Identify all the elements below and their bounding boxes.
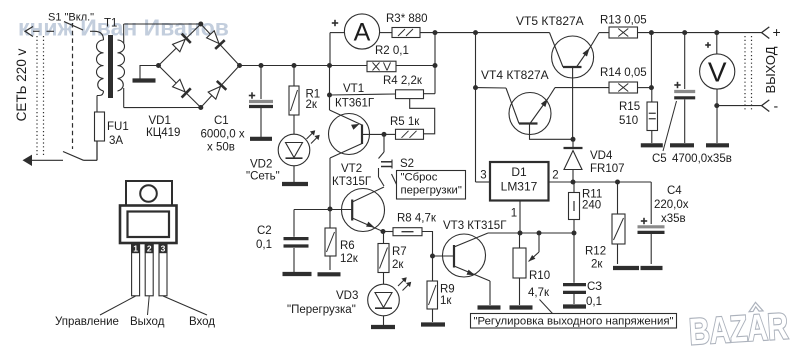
svg-text:х 50в: х 50в [207,142,235,154]
svg-text:V: V [708,57,727,88]
svg-text:R2 0,1: R2 0,1 [375,45,409,57]
svg-text:BAZAR: BAZAR [688,305,789,352]
svg-text:R3* 880: R3* 880 [386,13,428,25]
svg-text:4700,0х35в: 4700,0х35в [672,153,732,165]
svg-text:R7: R7 [392,246,407,258]
svg-text:D1: D1 [511,165,527,179]
svg-text:3: 3 [161,244,166,254]
svg-text:0,1: 0,1 [586,296,602,308]
svg-text:VT4 КТ827А: VT4 КТ827А [481,68,549,82]
svg-text:VT2: VT2 [341,163,362,175]
svg-text:1к: 1к [440,295,452,307]
svg-text:VT3 КТ315Г: VT3 КТ315Г [443,220,507,232]
svg-text:+: + [773,24,781,40]
svg-text:3: 3 [480,170,486,182]
svg-text:-: - [774,98,779,114]
svg-text:R15: R15 [619,101,640,113]
svg-text:Т1: Т1 [104,18,117,30]
svg-text:СЕТЬ 220 v: СЕТЬ 220 v [14,48,29,121]
svg-text:VD2: VD2 [250,159,272,171]
svg-text:перегрузки": перегрузки" [401,185,462,197]
svg-text:C5: C5 [652,153,667,165]
svg-text:R14 0,05: R14 0,05 [600,67,647,79]
svg-text:VT1: VT1 [343,83,364,95]
svg-text:2к: 2к [392,259,404,271]
svg-text:СЗ: СЗ [587,281,602,293]
svg-text:510: 510 [619,115,638,127]
svg-text:VT5 КТ827А: VT5 КТ827А [516,14,584,28]
svg-text:2: 2 [147,244,152,254]
svg-text:"Сброс: "Сброс [401,172,438,184]
svg-text:2к: 2к [591,259,603,271]
svg-text:R5 1к: R5 1к [390,116,420,128]
svg-text:0,1: 0,1 [256,239,272,251]
svg-text:C1: C1 [214,115,229,127]
svg-text:Выход: Выход [130,316,165,328]
svg-text:1: 1 [133,244,138,254]
svg-text:КТ315Г: КТ315Г [332,176,372,188]
svg-text:FR107: FR107 [590,163,625,175]
svg-text:Вход: Вход [189,316,215,328]
svg-text:R8 4,7к: R8 4,7к [397,213,437,225]
svg-text:х35в: х35в [661,213,686,225]
svg-text:R13 0,05: R13 0,05 [600,15,647,27]
svg-text:2к: 2к [306,99,318,111]
svg-text:2: 2 [552,170,558,182]
svg-text:S1 "Вкл.": S1 "Вкл." [48,12,94,24]
svg-text:12к: 12к [340,253,359,265]
svg-text:S2: S2 [400,158,414,170]
svg-text:C4: C4 [667,185,682,197]
svg-text:4,7к: 4,7к [528,287,550,299]
svg-text:Управление: Управление [55,316,119,328]
svg-text:FU1: FU1 [107,121,129,133]
svg-text:3А: 3А [109,135,123,147]
svg-text:R4 2,2к: R4 2,2к [383,75,423,87]
svg-text:R10: R10 [529,270,550,282]
svg-text:R6: R6 [340,240,355,252]
svg-text:R9: R9 [440,284,455,296]
svg-text:R12: R12 [585,246,606,258]
svg-text:220,0х: 220,0х [654,199,689,211]
svg-text:А: А [354,19,371,47]
svg-text:КТ361Г: КТ361Г [335,98,375,110]
svg-text:6000,0 х: 6000,0 х [201,129,245,141]
svg-text:240: 240 [582,200,601,212]
svg-text:1: 1 [511,208,517,220]
svg-text:ВЫХОД: ВЫХОД [763,46,778,93]
svg-text:LM317: LM317 [501,180,538,194]
svg-text:VD3: VD3 [336,290,358,302]
svg-text:"Перегрузка": "Перегрузка" [287,304,356,316]
svg-text:"Сеть": "Сеть" [246,171,280,183]
svg-text:"Регулировка выходного напряже: "Регулировка выходного напряжения" [473,315,673,327]
svg-text:C2: C2 [257,225,272,237]
svg-text:VD4: VD4 [590,150,613,162]
svg-text:VD1: VD1 [149,115,171,127]
svg-text:КЦ419: КЦ419 [146,127,180,139]
